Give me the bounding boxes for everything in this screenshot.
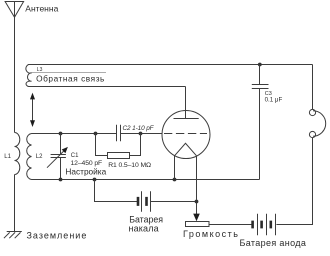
svg-text:накала: накала	[129, 224, 159, 234]
svg-text:C1: C1	[71, 153, 79, 159]
svg-text:R1 0.5–10 МΩ: R1 0.5–10 МΩ	[108, 162, 151, 169]
potentiometer volume	[186, 222, 210, 227]
coil L3 feedback	[26, 65, 313, 87]
wire antenna to L1	[14, 17, 16, 132]
battery B1 filament	[138, 197, 147, 206]
svg-text:L2: L2	[36, 154, 43, 160]
node C1 top	[59, 132, 63, 136]
svg-text:Громкость: Громкость	[183, 229, 239, 239]
node filament battery drop	[93, 178, 97, 182]
wiper arrowhead	[193, 214, 200, 222]
antenna	[5, 2, 24, 18]
svg-text:Антенна: Антенна	[25, 3, 58, 13]
coupling arrow L3/L2	[32, 98, 34, 126]
wire pot to anode battery	[209, 224, 252, 226]
svg-text:Батарея анода: Батарея анода	[240, 238, 307, 248]
L3 inner turn line	[32, 71, 106, 73]
wire C2 right to grid node	[121, 133, 141, 135]
C1 arrow	[47, 150, 65, 168]
wire anode battery to right rail	[276, 138, 312, 225]
wire grid to C2 node	[141, 133, 163, 135]
variable capacitor C1	[51, 134, 66, 180]
node wiper	[195, 200, 199, 204]
node R1/C2 right	[139, 132, 143, 136]
inductor L1	[15, 133, 20, 175]
tube anode plate	[174, 118, 199, 120]
wire filament battery to node	[151, 201, 197, 203]
node C1 bottom	[59, 178, 63, 182]
tube grid (dashed)	[164, 133, 207, 135]
headphones	[309, 109, 315, 115]
resistor R1	[96, 134, 141, 156]
inductor L2	[27, 134, 32, 180]
svg-text:C2 1-10 pF: C2 1-10 pF	[123, 125, 155, 132]
tank bottom wire	[32, 179, 260, 181]
wire filament left leg	[174, 156, 176, 180]
wire filament right leg	[196, 156, 198, 216]
tube U1 envelope	[162, 111, 210, 159]
svg-text:L3: L3	[37, 67, 43, 73]
wire to filament battery	[95, 180, 138, 202]
tube filament	[175, 143, 197, 156]
svg-text:L1: L1	[4, 154, 11, 160]
svg-text:Обратная связь: Обратная связь	[36, 73, 105, 83]
battery B2 anode	[253, 221, 271, 229]
capacitor C2	[117, 125, 121, 142]
wire C2 left to tank top	[32, 133, 117, 135]
ground	[4, 232, 22, 239]
node filament left leg	[173, 178, 177, 182]
capacitor C3	[252, 65, 269, 180]
wire L3 to anode	[185, 87, 187, 119]
svg-text:Настройка: Настройка	[65, 167, 106, 177]
svg-text:0.1 μF: 0.1 μF	[265, 97, 283, 104]
wire top rail right corner down to phones	[312, 65, 314, 110]
node top rail / C3 junction	[258, 63, 262, 67]
node R1 left	[94, 132, 98, 136]
svg-text:Заземление: Заземление	[27, 230, 88, 240]
wire L1 to ground	[14, 175, 16, 232]
